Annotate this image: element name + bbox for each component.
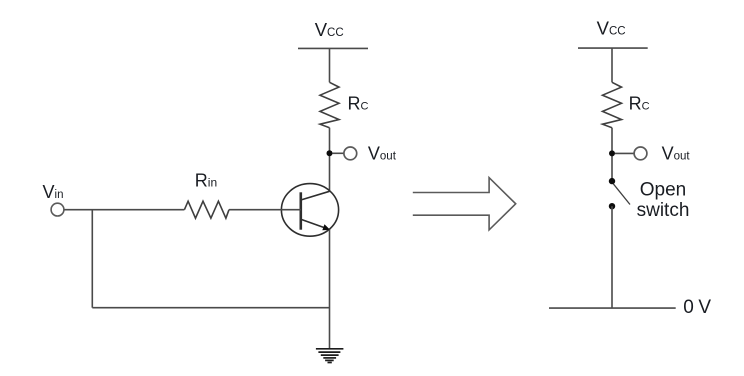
node junction dot at Vout (right): [609, 150, 615, 156]
terminal Vout (right) open circle: [634, 147, 647, 160]
power rail Vcc bar (right): [578, 47, 648, 49]
wire feedback vertical from Vin node: [91, 210, 93, 308]
transistor Q1 emitter diagonal: [301, 219, 326, 228]
wire node to Vout terminal (left): [333, 152, 344, 154]
wire switch to 0V rail: [611, 206, 613, 308]
wire emitter down to ground: [329, 230, 331, 349]
svg-text:Open: Open: [640, 180, 686, 201]
switch S1 open blade: [613, 184, 630, 205]
arrow (transform) outline: [413, 178, 516, 230]
transistor Q1 emitter arrowhead: [322, 224, 330, 230]
wire Vin to Rin: [64, 209, 184, 211]
transistor Q1 base bar: [299, 192, 302, 229]
wire Vcc bar to Rc (right): [611, 48, 613, 82]
node junction dot at Vout (left): [327, 150, 333, 156]
switch S1 bottom contact dot: [609, 203, 615, 209]
wire Rc to switch (right): [611, 128, 613, 181]
switch S1 top contact dot: [609, 178, 615, 184]
resistor RC (left): [320, 82, 339, 127]
wire Vcc bar to Rc: [329, 48, 331, 82]
terminal Vin open circle: [51, 203, 64, 216]
wire node to Vout terminal (right): [615, 152, 634, 154]
transistor Q1 collector diagonal: [301, 191, 330, 200]
resistor RIN: [184, 201, 229, 218]
rail 0V horizontal line: [549, 307, 676, 309]
wire Rin to base: [229, 209, 301, 211]
svg-text:switch: switch: [637, 200, 690, 221]
transistor Q1 body circle: [281, 184, 338, 237]
ground symbol: [316, 349, 344, 363]
wire bottom horizontal: [92, 307, 329, 309]
wire Rc to collector: [329, 128, 331, 192]
power rail Vcc bar (left): [298, 47, 368, 49]
resistor RC (right): [603, 82, 622, 127]
terminal Vout (left) open circle: [344, 147, 357, 160]
